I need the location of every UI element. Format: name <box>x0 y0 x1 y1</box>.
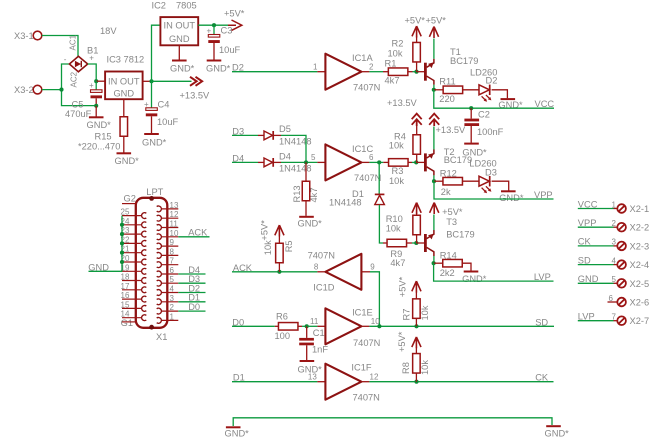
svg-text:5: 5 <box>311 153 316 162</box>
wire T1 collector to node <box>433 85 435 90</box>
svg-text:11: 11 <box>170 220 179 229</box>
junction X3-2/bridge <box>59 88 63 92</box>
connector pin X2-7 <box>612 313 650 327</box>
wire/label ACK net <box>232 263 325 273</box>
ground below C3 <box>206 61 231 74</box>
svg-text:1nF: 1nF <box>312 345 328 355</box>
pin G2 <box>122 193 137 203</box>
svg-text:1N4148: 1N4148 <box>329 197 362 207</box>
wire/label D1 net <box>232 373 325 383</box>
wire GND from pin19 <box>88 262 122 272</box>
svg-text:18: 18 <box>121 273 130 282</box>
svg-text:8: 8 <box>314 263 319 272</box>
svg-text:4k7: 4k7 <box>385 76 400 86</box>
svg-text:7407N: 7407N <box>353 338 380 348</box>
wire D4 to IC1C input <box>281 161 325 163</box>
transistor T2 BC179 <box>425 147 472 175</box>
wire/label D0 net <box>232 317 279 327</box>
resistor R1 4k7 <box>385 59 417 86</box>
ground below C2 <box>462 144 487 158</box>
ground at LED D2 <box>498 99 523 110</box>
svg-text:ACK: ACK <box>188 228 208 238</box>
resistor R7 10k <box>402 292 430 326</box>
svg-text:+: + <box>89 54 94 63</box>
svg-text:14: 14 <box>121 310 130 319</box>
svg-text:7407N: 7407N <box>354 173 381 183</box>
svg-text:C4: C4 <box>158 100 170 110</box>
svg-text:GND*: GND* <box>499 193 524 203</box>
wire node to IC3 IN <box>96 80 105 82</box>
svg-text:R6: R6 <box>276 312 288 322</box>
svg-text:10k: 10k <box>420 360 430 375</box>
svg-text:1N4148: 1N4148 <box>279 136 312 146</box>
connector pin X2-5 <box>612 275 650 289</box>
wire node to T2 base <box>416 161 424 163</box>
wire X3-1 to bridge AC1 <box>42 36 78 57</box>
resistor R15 <box>78 99 128 152</box>
svg-text:7407N: 7407N <box>353 82 380 92</box>
svg-text:*220...470: *220...470 <box>78 142 120 152</box>
svg-text:10k: 10k <box>386 224 401 234</box>
wire LVP net <box>434 263 554 282</box>
svg-text:4: 4 <box>170 285 175 294</box>
supply +13.5V output arrow <box>180 77 211 101</box>
svg-text:T3: T3 <box>446 217 457 227</box>
capacitor C5 <box>65 81 102 119</box>
node D4/D5/R13 <box>304 160 308 164</box>
svg-text:R10: R10 <box>386 214 403 224</box>
svg-text:2k: 2k <box>441 187 451 197</box>
svg-text:7407N: 7407N <box>308 250 335 260</box>
capacitor C3 <box>207 25 241 60</box>
svg-text:+13.5V: +13.5V <box>180 91 211 101</box>
svg-text:+5V*: +5V* <box>426 16 447 26</box>
svg-text:VCC: VCC <box>535 99 555 109</box>
wire node down to C4 <box>151 81 153 107</box>
resistor R5 10k <box>263 237 294 272</box>
svg-text:17: 17 <box>121 282 130 291</box>
resistor R8 10k <box>401 348 430 382</box>
svg-text:SD: SD <box>535 317 548 327</box>
svg-text:4: 4 <box>612 256 617 265</box>
node bridge+/C5/IC3-IN <box>94 79 98 83</box>
wire/label D4 at pin6 <box>178 265 205 275</box>
svg-text:470uF: 470uF <box>65 109 92 119</box>
X1 right contact arcs <box>157 206 162 323</box>
svg-text:2: 2 <box>369 63 374 72</box>
wire/label D3 net <box>232 126 258 136</box>
svg-text:IC1D: IC1D <box>313 283 334 293</box>
resistor R10 10k <box>386 214 421 244</box>
wire LED D3 to ground <box>492 181 509 190</box>
svg-text:D5: D5 <box>279 124 291 134</box>
svg-text:X2-2: X2-2 <box>630 223 650 233</box>
svg-text:GND: GND <box>88 262 109 272</box>
svg-text:VCC: VCC <box>578 199 598 209</box>
connector pin X2-3 <box>612 238 650 252</box>
svg-text:C5: C5 <box>72 100 84 110</box>
wire VPP net <box>434 181 554 200</box>
svg-text:R8: R8 <box>401 362 411 374</box>
svg-text:CK: CK <box>535 373 549 383</box>
op-amp buffer IC1D 7407N <box>308 250 376 292</box>
svg-text:100: 100 <box>275 331 291 341</box>
svg-text:BC179: BC179 <box>444 155 472 165</box>
node R8 on CK <box>414 380 418 384</box>
wire SD net <box>361 317 554 327</box>
svg-text:10k: 10k <box>420 305 430 320</box>
svg-text:R1: R1 <box>385 59 397 69</box>
svg-text:X2-7: X2-7 <box>630 316 650 326</box>
svg-text:+5V*: +5V* <box>224 9 245 19</box>
svg-text:SD: SD <box>578 255 591 265</box>
wire/label D2 net to IC1A <box>232 63 325 73</box>
wire/label VPP to X2-2 <box>578 218 617 228</box>
svg-text:9: 9 <box>370 263 375 272</box>
ground below C4 <box>142 116 167 147</box>
svg-text:1N4148: 1N4148 <box>279 164 312 174</box>
capacitor C1 1nF <box>299 326 328 360</box>
transistor T1 BC179 <box>425 47 478 85</box>
capacitor C2 100nF <box>464 108 503 143</box>
svg-text:13: 13 <box>308 373 317 382</box>
svg-text:AC2: AC2 <box>70 71 79 87</box>
svg-text:R14: R14 <box>440 250 457 260</box>
node T1 collector/R11/VCC <box>432 88 436 92</box>
node pin21 <box>120 251 124 255</box>
wire/label D3 at pin5 <box>178 274 205 284</box>
connector pin X2-1 <box>612 200 650 214</box>
node C2 on VCC <box>469 106 473 110</box>
svg-text:R11: R11 <box>439 76 455 86</box>
node IC2-OUT/C3 <box>212 23 216 27</box>
svg-text:VPP: VPP <box>534 190 553 200</box>
resistor R13 4k7 <box>292 162 319 216</box>
svg-text:G2: G2 <box>124 193 136 203</box>
supply +13.5V above R4 <box>387 98 422 126</box>
wire D5 to node <box>281 135 306 162</box>
svg-text:220: 220 <box>439 94 455 104</box>
svg-text:X2-5: X2-5 <box>630 279 650 289</box>
svg-text:10: 10 <box>170 229 179 238</box>
svg-text:IN: IN <box>108 77 117 87</box>
op-amp buffer IC1A 7407N <box>313 53 380 92</box>
wire T2 emitter to +13.5V <box>433 127 435 150</box>
node R6/C1/IC1E in <box>305 324 309 328</box>
wire bridge plus to IC3 IN node <box>88 64 97 81</box>
svg-text:2: 2 <box>612 219 617 228</box>
resistor R14 2k2 <box>434 250 471 278</box>
supply +5V* above T1 <box>426 16 447 39</box>
node R1/R2/T1 base <box>414 70 418 74</box>
svg-text:+5V*: +5V* <box>442 207 463 217</box>
svg-text:D0: D0 <box>188 302 200 312</box>
svg-text:GND*: GND* <box>170 64 195 74</box>
svg-text:5: 5 <box>612 275 617 284</box>
supply +5V* above R5 <box>260 220 285 241</box>
wire node down to C5 <box>95 81 97 89</box>
wire CK net <box>361 373 553 383</box>
svg-text:G1: G1 <box>121 318 133 328</box>
svg-text:R5: R5 <box>284 240 294 252</box>
svg-text:R13: R13 <box>292 185 302 202</box>
svg-text:GND: GND <box>113 89 134 99</box>
supply +5V* above R2 <box>405 16 426 38</box>
wire node right to +13.5V supply <box>152 80 192 82</box>
bridge rectifier B1 <box>64 34 99 87</box>
wire node to IC1E input <box>307 325 326 327</box>
svg-text:2: 2 <box>170 303 175 312</box>
resistor R2 10k <box>388 37 421 72</box>
ground below C1 <box>298 361 323 375</box>
svg-text:LVP: LVP <box>578 312 595 322</box>
node T2 collector/R12/VPP <box>432 179 436 183</box>
wire/label LVP to X2-7 <box>578 312 617 322</box>
wire T1 emitter to +5V* <box>433 39 435 59</box>
resistor R3 10k <box>389 159 417 186</box>
node R9/R10/T3 base <box>414 241 418 245</box>
svg-text:4k7: 4k7 <box>309 188 319 203</box>
svg-text:GND*: GND* <box>142 138 167 148</box>
node R3/R4/T2 base <box>414 160 418 164</box>
X1 right pins 13..1 <box>161 209 178 321</box>
svg-text:10k: 10k <box>388 49 403 59</box>
svg-text:C3: C3 <box>221 26 233 36</box>
node C5 bottom <box>94 104 98 108</box>
node R7 on SD <box>414 324 418 328</box>
svg-text:BC179: BC179 <box>450 56 478 66</box>
ground below IC2 <box>170 45 195 73</box>
svg-text:X2-3: X2-3 <box>630 241 650 251</box>
op-amp buffer IC1F 7407N <box>308 362 380 402</box>
wire/label SD to X2-4 <box>578 255 617 265</box>
resistor R6 100 <box>275 312 307 341</box>
diode D1 1N4148 <box>329 189 384 208</box>
connector X1 body (DB25) <box>136 187 168 342</box>
connector X3-1 <box>14 31 42 41</box>
ground below R15 <box>115 153 140 166</box>
svg-text:13: 13 <box>170 201 179 210</box>
svg-text:25: 25 <box>121 208 130 217</box>
connector X3-2 <box>14 85 42 95</box>
svg-text:LVP: LVP <box>534 272 551 282</box>
wire/label GND to X2-5 <box>578 274 617 284</box>
node pin20 <box>120 260 124 264</box>
svg-text:LPT: LPT <box>146 187 163 197</box>
ground below R13 <box>298 217 323 229</box>
wire D1 anode to R9 <box>379 205 387 243</box>
wire/label CK to X2-3 <box>578 237 617 247</box>
pin G1 <box>121 318 137 328</box>
X1 left contact arcs <box>142 213 147 321</box>
node pin23 <box>120 232 124 236</box>
svg-text:+13.5V: +13.5V <box>436 125 467 135</box>
regulator IC2 7805 <box>152 1 199 46</box>
diode D5 1N4148 <box>258 124 312 146</box>
svg-text:AC1: AC1 <box>69 34 78 50</box>
resistor R11 220 <box>434 76 479 104</box>
ground at R14 <box>462 272 487 285</box>
svg-text:2k2: 2k2 <box>440 268 455 278</box>
node pin24 <box>120 223 124 227</box>
svg-text:5: 5 <box>170 275 175 284</box>
svg-text:+: + <box>89 81 94 90</box>
svg-text:GND*: GND* <box>115 156 140 166</box>
wire T3 collector to node <box>433 256 435 263</box>
svg-text:10uF: 10uF <box>157 117 179 127</box>
wire/label D4 net <box>232 153 258 163</box>
LED D2 LD260 <box>470 67 497 102</box>
supply +13.5V above T2 <box>429 114 466 135</box>
svg-text:4k7: 4k7 <box>390 258 405 268</box>
X1 left pins 25..14 <box>122 216 142 318</box>
svg-text:D3: D3 <box>485 167 497 177</box>
svg-text:OUT: OUT <box>120 77 140 87</box>
svg-text:X2-6: X2-6 <box>630 298 650 308</box>
svg-text:7407N: 7407N <box>353 393 380 403</box>
ground at LED D3 <box>499 191 524 203</box>
diode D4 1N4148 <box>258 152 312 174</box>
wire node up to IC2 IN <box>152 25 161 81</box>
wire node to T3 base <box>416 242 424 244</box>
svg-text:D4: D4 <box>279 152 291 162</box>
X1 left pin numbers <box>121 208 130 319</box>
LED D3 LD260 <box>469 159 497 194</box>
connector pin X2-6 <box>608 294 650 308</box>
svg-text:6: 6 <box>369 153 374 162</box>
supply +5V* above R7 <box>398 276 422 297</box>
svg-text:IC1F: IC1F <box>351 362 371 372</box>
svg-text:CK: CK <box>578 237 592 247</box>
op-amp buffer IC1E 7407N <box>310 307 380 348</box>
svg-text:16: 16 <box>121 291 130 300</box>
transistor T3 BC179 <box>425 217 474 256</box>
wire/label D2 at pin4 <box>178 283 205 293</box>
svg-text:IC3 7812: IC3 7812 <box>107 55 145 65</box>
svg-text:1: 1 <box>170 312 175 321</box>
connector pin X2-2 <box>612 219 650 233</box>
svg-text:X3-1: X3-1 <box>14 31 34 41</box>
ground left end <box>225 427 250 437</box>
capacitor C4 <box>144 100 179 128</box>
svg-text:GND*: GND* <box>545 429 570 437</box>
svg-text:6: 6 <box>170 266 175 275</box>
svg-text:+5V*: +5V* <box>260 220 270 241</box>
svg-text:+13.5V: +13.5V <box>387 98 418 108</box>
svg-text:7: 7 <box>612 313 617 322</box>
wire LED D2 to ground <box>492 90 508 99</box>
wire T2 collector to node <box>433 175 435 181</box>
svg-text:BC179: BC179 <box>446 229 474 239</box>
supply +5V* above T3 <box>430 203 463 217</box>
svg-text:7805: 7805 <box>176 1 197 11</box>
svg-text:IC1E: IC1E <box>352 307 373 317</box>
node T3 collector/R14/LVP <box>432 261 436 265</box>
svg-text:X1: X1 <box>156 332 167 342</box>
svg-text:10k: 10k <box>389 140 404 150</box>
svg-text:1: 1 <box>612 200 617 209</box>
svg-text:GND*: GND* <box>298 219 323 229</box>
node IC1D feedback on SD <box>377 324 381 328</box>
op-amp buffer IC1C 7407N <box>311 144 381 183</box>
svg-text:R15: R15 <box>95 132 112 142</box>
wire/label D1 at pin3 <box>178 293 205 303</box>
svg-text:3: 3 <box>612 238 617 247</box>
svg-text:R3: R3 <box>392 166 404 176</box>
svg-text:+5V*: +5V* <box>398 276 408 297</box>
svg-text:+5V*: +5V* <box>405 16 426 26</box>
svg-text:X2-1: X2-1 <box>630 204 650 214</box>
svg-text:10k: 10k <box>263 240 273 255</box>
svg-text:R7: R7 <box>402 309 412 321</box>
resistor R9 4k7 <box>387 239 416 268</box>
svg-text:+5V*: +5V* <box>397 331 407 352</box>
ground right end <box>545 426 570 437</box>
wire VCC net <box>434 90 555 109</box>
svg-text:12: 12 <box>370 373 379 382</box>
connector pin X2-4 <box>612 256 650 270</box>
svg-text:C1: C1 <box>313 328 325 338</box>
svg-text:11: 11 <box>310 317 319 326</box>
svg-text:C2: C2 <box>478 110 490 120</box>
wire T3 emitter to +5V* <box>433 215 435 231</box>
svg-text:IC2: IC2 <box>152 1 166 11</box>
svg-text:X2-4: X2-4 <box>630 260 650 270</box>
svg-text:1: 1 <box>313 63 318 72</box>
svg-text:GND*: GND* <box>225 428 250 437</box>
wire IC3 OUT to 13.5V node <box>143 80 152 82</box>
svg-text:IN: IN <box>164 21 173 31</box>
svg-text:D2: D2 <box>486 75 498 85</box>
svg-text:8: 8 <box>170 247 175 256</box>
svg-text:GND*: GND* <box>206 64 231 74</box>
svg-text:X3-2: X3-2 <box>14 85 34 95</box>
svg-text:OUT: OUT <box>175 21 195 31</box>
wire bridge minus down to C5 bottom <box>62 64 97 106</box>
svg-text:GND*: GND* <box>462 274 487 284</box>
X1 right pin numbers <box>170 201 179 322</box>
svg-text:GND: GND <box>169 34 190 44</box>
svg-text:10k: 10k <box>389 176 404 186</box>
svg-text:-: - <box>64 55 67 64</box>
supply +5V* above R10 <box>412 203 421 214</box>
ground below C5 <box>87 106 112 130</box>
svg-text:18V: 18V <box>100 26 117 36</box>
svg-text:R12: R12 <box>440 168 457 178</box>
svg-text:VPP: VPP <box>578 218 597 228</box>
svg-text:10uF: 10uF <box>219 45 241 55</box>
svg-text:15: 15 <box>121 300 130 309</box>
node ACK/R5 <box>277 270 281 274</box>
regulator IC3 7812 <box>105 55 144 100</box>
node IC1C out/D1 <box>377 160 381 164</box>
node IC3-OUT/IC2-IN/C4 <box>149 79 153 83</box>
wire/label ACK at pin10 <box>178 228 209 238</box>
wire IC1D input to SD node <box>361 272 379 327</box>
resistor R4 10k <box>389 126 421 162</box>
node pin22 <box>120 241 124 245</box>
svg-text:12: 12 <box>170 210 179 219</box>
svg-text:100nF: 100nF <box>477 127 504 137</box>
svg-text:9: 9 <box>170 238 175 247</box>
supply +5V* output arrow <box>224 9 245 31</box>
wire IC1C out node down to D1 <box>378 162 380 194</box>
wire ground rail <box>233 418 552 426</box>
svg-text:GND*: GND* <box>87 120 112 130</box>
svg-text:3: 3 <box>170 294 175 303</box>
svg-text:IC1A: IC1A <box>352 53 373 63</box>
svg-text:R2: R2 <box>392 39 404 49</box>
